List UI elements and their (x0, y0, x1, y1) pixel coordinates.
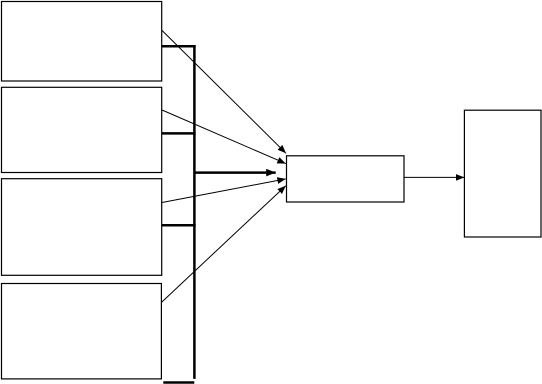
arrow from box 3 to middle box (162, 179, 286, 203)
wire stub from box 3 to busbar (162, 224, 196, 227)
arrow from box 2 to middle box (162, 110, 286, 164)
arrow from box 1 to middle box (162, 31, 286, 154)
busbar vertical line (193, 45, 196, 379)
bottom bar below box 4 (163, 381, 194, 384)
wire stub from box 1 to busbar (162, 45, 196, 48)
arrow from box 4 to middle box (162, 186, 286, 303)
wire stub from box 2 to busbar (162, 132, 196, 135)
arrow from middle box to right box (404, 176, 464, 178)
box 2 (2, 87, 162, 172)
middle box (287, 156, 405, 202)
thick arrow from busbar to middle box (196, 171, 276, 174)
box 4 (bottom-left rectangle) (2, 284, 162, 379)
box 3 (2, 179, 162, 276)
box 1 (top-left rectangle) (2, 2, 162, 82)
right box (464, 110, 541, 237)
